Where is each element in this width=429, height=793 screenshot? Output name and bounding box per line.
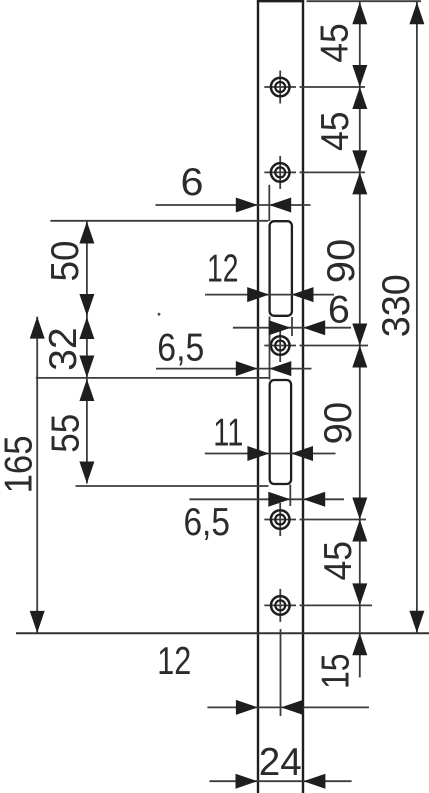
svg-text:12: 12 — [207, 248, 239, 291]
svg-text:90: 90 — [320, 239, 363, 284]
svg-text:24: 24 — [259, 741, 302, 784]
svg-text:6: 6 — [328, 288, 350, 331]
svg-text:6,5: 6,5 — [157, 326, 204, 369]
svg-text:50: 50 — [44, 241, 87, 282]
svg-text:32: 32 — [42, 327, 85, 371]
svg-text:6: 6 — [181, 161, 204, 204]
svg-text:330: 330 — [375, 274, 418, 337]
svg-text:15: 15 — [315, 653, 358, 689]
svg-text:90: 90 — [317, 402, 360, 445]
svg-text:45: 45 — [314, 23, 357, 63]
svg-text:45: 45 — [317, 541, 360, 581]
svg-text:6,5: 6,5 — [183, 501, 230, 544]
svg-text:11: 11 — [213, 412, 243, 455]
svg-text:165: 165 — [0, 435, 41, 493]
svg-text:55: 55 — [44, 414, 87, 453]
svg-text:12: 12 — [157, 640, 191, 683]
svg-text:45: 45 — [314, 111, 357, 151]
